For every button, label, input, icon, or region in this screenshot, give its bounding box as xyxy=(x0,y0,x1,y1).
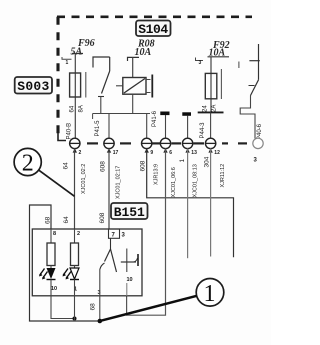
relay R08 contact bracket top xyxy=(146,79,151,81)
fuse F96 pin 1 tick xyxy=(62,57,72,59)
wire down to connector c2 xyxy=(108,114,110,139)
svg-text:XJC01_02:2: XJC01_02:2 xyxy=(81,164,87,194)
svg-text:S104: S104 xyxy=(138,22,168,37)
fuse F92 top rail xyxy=(208,56,230,58)
switch (F92 group) top bar xyxy=(249,60,259,62)
svg-text:64: 64 xyxy=(70,105,76,112)
svg-text:P41-6: P41-6 xyxy=(152,110,158,127)
svg-text:608: 608 xyxy=(100,161,107,172)
svg-text:5A: 5A xyxy=(71,46,83,57)
relay R08 coil diagonal xyxy=(124,79,145,94)
fuse F96 body xyxy=(70,73,81,97)
switch (F92 group) output path xyxy=(240,96,255,139)
svg-text:XJC01_08:13: XJC01_08:13 xyxy=(193,164,199,197)
svg-text:XJC01_06:6: XJC01_06:6 xyxy=(171,167,177,197)
switch (F92 group) blade xyxy=(251,80,259,96)
dashed border bottom row segments between connectors xyxy=(87,142,247,144)
fuse F96 value label xyxy=(71,38,95,57)
B151 sensor hook xyxy=(134,258,138,262)
svg-text:68: 68 xyxy=(45,216,52,224)
switch (F96 group) contact tick xyxy=(98,96,104,98)
B151 switch contact hook xyxy=(100,263,105,270)
relay R08 left lead xyxy=(116,85,123,87)
relay R08 value label xyxy=(135,39,155,59)
wire c1 to B151 pin 2 xyxy=(74,148,76,229)
svg-text:10: 10 xyxy=(51,286,57,292)
svg-text:68: 68 xyxy=(90,303,97,311)
resistor R2 xyxy=(71,229,79,266)
svg-text:64: 64 xyxy=(63,162,70,170)
svg-text:608: 608 xyxy=(140,160,147,171)
LED D1 (filled) xyxy=(39,266,56,280)
switch (F96 group) output wire xyxy=(100,97,102,114)
wire down to connector c3 xyxy=(146,114,148,139)
wire down to connector c6 xyxy=(210,112,212,138)
dashed border box S104 left edge xyxy=(56,17,59,136)
svg-text:2: 2 xyxy=(79,150,82,156)
wire down to connector c4 xyxy=(165,115,167,138)
wire c4 long drop xyxy=(127,148,166,315)
svg-text:8A: 8A xyxy=(79,105,85,112)
svg-text:P41-5: P41-5 xyxy=(95,120,101,137)
relay R08 coil return wire xyxy=(132,94,134,113)
fuse F92 value label xyxy=(209,40,230,59)
splice bar above c4 xyxy=(160,112,169,116)
LED D2 (open) xyxy=(63,266,80,280)
resistor R1 xyxy=(47,229,55,266)
LED return wires to box bottom xyxy=(50,280,52,296)
long link wire (switch/relay coil/circle3 net) xyxy=(93,113,150,115)
switch (F92 group) input wire xyxy=(258,44,260,80)
B151 switch stub xyxy=(110,238,112,249)
B151 switch blade left xyxy=(105,249,111,262)
wire c3 L-shaped to right drop xyxy=(147,148,234,257)
pin10/pin1 junction wire xyxy=(51,296,75,319)
svg-text:608: 608 xyxy=(99,212,106,223)
connector circle c3 xyxy=(142,138,154,156)
switch (F96 group) top bar xyxy=(93,57,110,68)
svg-text:XJC01_02:17: XJC01_02:17 xyxy=(116,166,122,199)
svg-text:S003: S003 xyxy=(17,79,49,94)
connector circle c5 xyxy=(182,138,197,156)
connector circle c1 xyxy=(70,138,82,156)
label box S104 xyxy=(136,21,171,38)
fuse F96 wire through xyxy=(74,54,76,139)
svg-text:2: 2 xyxy=(77,231,80,237)
callout circle 1 xyxy=(101,279,224,321)
svg-text:10A: 10A xyxy=(135,47,152,58)
ground junction dot xyxy=(98,319,103,324)
fuse F96 top rail xyxy=(72,53,83,55)
dashed border box S104 bottom-left corner xyxy=(58,133,66,141)
wire c5 drop xyxy=(187,148,189,258)
relay R08 top rail xyxy=(128,57,140,61)
svg-text:1: 1 xyxy=(204,281,216,307)
svg-text:17: 17 xyxy=(113,150,119,156)
svg-text:12: 12 xyxy=(214,150,220,156)
relay R08 contact bracket bottom xyxy=(146,92,151,94)
wire down to connector c5 xyxy=(187,116,189,139)
svg-text:XJR11:12: XJR11:12 xyxy=(220,164,226,188)
splice bar above c5 xyxy=(182,112,191,116)
switch (F96 group) blade xyxy=(102,71,110,94)
svg-text:24: 24 xyxy=(203,105,209,112)
switch (F96 group) input wire xyxy=(109,57,111,71)
relay R08 coil box xyxy=(123,78,146,95)
pin 1 wire down xyxy=(74,296,76,321)
svg-text:64: 64 xyxy=(63,216,70,224)
dashed border box S104 top edge xyxy=(57,15,252,18)
svg-text:2: 2 xyxy=(22,151,34,177)
connector circle c7 xyxy=(253,138,263,163)
callout circle 2 xyxy=(14,148,74,196)
svg-text:P40-B: P40-B xyxy=(67,123,73,140)
svg-text:2A: 2A xyxy=(212,105,218,112)
B151 sensor contact bar xyxy=(137,254,139,266)
svg-text:6: 6 xyxy=(169,150,172,156)
fuse F96 holder line xyxy=(85,72,87,98)
fuse F92 body xyxy=(205,73,217,98)
svg-text:3: 3 xyxy=(199,60,202,66)
svg-text:B151: B151 xyxy=(114,205,145,220)
wire c6 drop xyxy=(210,148,212,256)
svg-text:8: 8 xyxy=(53,231,56,237)
B151 switch output wire to pin 3 xyxy=(99,270,101,322)
switch (F92 group) contact tick xyxy=(249,85,255,87)
svg-text:13: 13 xyxy=(191,150,197,156)
svg-text:304: 304 xyxy=(204,156,211,167)
switch (F92 group) top bracket tick xyxy=(238,62,240,69)
svg-text:1: 1 xyxy=(66,60,69,66)
label box B151 xyxy=(111,203,148,220)
bracket tick at left end of link wire xyxy=(92,114,94,120)
B151 sensor wire xyxy=(126,249,128,273)
connector circle c4 xyxy=(160,138,172,156)
label box S003 xyxy=(15,77,52,94)
component box B151 xyxy=(32,229,142,296)
svg-text:XJR13:9: XJR13:9 xyxy=(154,164,160,185)
svg-text:1: 1 xyxy=(179,159,186,163)
B151 sensor pin 10 wire to box bottom xyxy=(126,283,128,296)
svg-text:P44-3: P44-3 xyxy=(200,122,206,139)
wire c2 to B151 pin 7 xyxy=(108,148,110,229)
net 68 loop wire (top) xyxy=(30,205,100,321)
svg-text:9: 9 xyxy=(150,150,153,156)
B151 switch blade right xyxy=(111,249,117,272)
connector circle c2 xyxy=(104,138,119,156)
junction dot pin1 xyxy=(73,317,77,321)
svg-text:10: 10 xyxy=(127,277,133,283)
svg-text:P40-6: P40-6 xyxy=(257,123,263,140)
fuse F92 pin 3 tick xyxy=(196,58,204,61)
splice bar above c6 xyxy=(198,111,224,113)
relay R08 coil feed wire xyxy=(132,57,134,77)
connector circle c6 xyxy=(205,138,220,156)
B151 switch pin 7 box xyxy=(109,229,120,239)
relay R08 contact bar xyxy=(151,75,153,98)
fuse F92 wire through xyxy=(210,57,212,113)
fuse F92 holder line xyxy=(220,69,222,99)
B151 sensor lead xyxy=(121,261,136,263)
